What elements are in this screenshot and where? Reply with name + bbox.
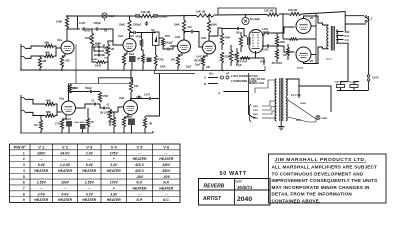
can capacitor 16uF ch1 [102,13,107,18]
capacitor tone b [97,50,102,53]
svg-text:V5: V5 [310,16,314,20]
svg-text:—: — [39,157,44,161]
svg-text:TREB: TREB [95,43,101,45]
transformer T2 secondary winding [336,30,338,43]
wire V3b cathode [203,54,207,57]
svg-text:HEATER: HEATER [107,198,121,202]
pot arrow vol ch1 [89,38,92,40]
svg-text:68K: 68K [45,51,50,55]
resistor R28 68K ch2 [45,102,55,105]
resistor R31 cathode ch2 [60,119,63,129]
V4 internal plates [252,33,260,49]
svg-text:100K: 100K [119,23,125,27]
resistor R34 1K [86,118,89,127]
svg-text:IMPROVEMENT CONSEQUENTLY THE U: IMPROVEMENT CONSEQUENTLY THE UNITS [272,178,378,183]
wire r39 [287,44,289,47]
transformer T1 heater secondary [286,98,287,121]
resistor R2 68K [44,54,54,57]
svg-text:430 V: 430 V [134,169,145,173]
capacitor C3 500pF bright [94,27,100,30]
svg-text:10K 1W: 10K 1W [196,10,206,14]
svg-text:0.7V: 0.7V [86,192,94,196]
resistor R22 PI tail [235,52,238,62]
wire r37 [113,112,115,117]
resistor R23 PI bottom [240,57,250,60]
svg-text:820: 820 [66,59,71,63]
wire V3a plate to C8 [184,32,190,37]
wire PI bottom right [240,57,250,59]
wire C8 to V3b grid [194,32,202,48]
input jack J4 tip hook [21,110,25,112]
svg-text:.022: .022 [129,35,134,38]
wire OT primary bottom [323,48,329,50]
transformer T1 HT secondary [286,79,287,96]
wire HT bridge over bus [218,8,276,15]
svg-text:1.55V: 1.55V [85,181,95,185]
svg-text:100V: 100V [61,181,70,185]
svg-text:+: + [113,187,115,191]
resistor R18 470K reverb [220,33,223,45]
svg-text:N.C.: N.C. [163,198,170,202]
resistor R37 1M left [112,117,115,127]
svg-text:8: 8 [23,192,25,196]
svg-text:2 OFF PO-430: 2 OFF PO-430 [249,78,266,81]
wire mix down [142,47,144,54]
ground bus drop [264,66,266,71]
svg-text:1M: 1M [111,48,114,51]
svg-text:V3a: V3a [175,35,181,39]
svg-text:10K: 10K [206,67,211,69]
wire V2a plate up [68,84,70,102]
wire V2b plate [130,92,132,101]
svg-text:-30V: -30V [163,175,171,179]
svg-text:1.4-5V: 1.4-5V [60,163,71,167]
svg-text:230V: 230V [253,110,259,112]
svg-text:0.047: 0.047 [144,94,151,97]
svg-text:FUSE: FUSE [300,103,306,105]
resistor R5 820 cathode V1a [60,56,63,67]
wire R21 [240,32,242,36]
capacitor blob mid [147,58,152,63]
notice box frame [269,154,387,203]
wire V1a cathode [62,54,65,57]
svg-text:—: — [164,151,169,155]
svg-text:1M: 1M [236,32,239,35]
svg-text:2: 2 [23,157,25,161]
svg-text:220K: 220K [73,87,79,90]
capacitor tone a [97,46,102,49]
capacitor C14 filter [350,85,358,88]
svg-text:2040: 2040 [237,196,252,203]
wire cap to grid line [100,29,119,45]
wire R20 [230,45,232,50]
svg-text:22K: 22K [134,85,139,88]
svg-text:CONTAINED ABOVE.: CONTAINED ABOVE. [272,198,321,203]
svg-text:64.0V: 64.0V [61,151,71,155]
svg-text:A.: A. [203,76,207,80]
capacitor C23 0.047 out [147,97,153,100]
wire bracket row2 [155,71,196,74]
wire screen resistor [298,38,316,40]
pot volume 1M arrow [91,46,93,49]
can capacitor 32+32uF [242,17,249,24]
svg-text:10n: 10n [104,58,108,60]
wire J4 to 68K [25,112,45,115]
wire C12 to V6 grid [270,46,294,52]
transformer T2 primary winding [327,25,329,49]
wire V5 plate to OT [304,16,323,23]
svg-text:HEATER: HEATER [133,157,147,161]
svg-text:160V: 160V [37,151,46,155]
wire J1 to 68K [25,46,44,48]
capacitor C22 8uF bypass [128,119,135,126]
wire V1b plate to cap [130,32,133,34]
pentode V6 [296,47,311,62]
transformer T1 primary winding [275,79,277,121]
wire can to bus [245,15,247,18]
wire mains live [255,88,262,93]
wire V2a cathode [62,115,66,120]
wire R22 [236,48,238,52]
resistor R24 220K bias upper [275,36,278,46]
svg-text:HEATER: HEATER [159,157,173,161]
wire R36 gnd [123,127,125,133]
resistor R1 68K [44,44,54,47]
phono plug P1 [221,76,224,79]
svg-text:HEATER: HEATER [133,187,147,191]
svg-text:—: — [164,192,169,196]
wire V4 plate upper [262,33,266,35]
svg-text:V 1: V 1 [38,145,45,150]
svg-text:6.4V: 6.4V [86,163,94,167]
wire R12 [142,63,144,70]
wire C13 stubs [340,88,342,91]
svg-text:6.3V: 6.3V [296,120,301,122]
wire V3b plate right [209,28,222,41]
ground bus row1 [20,69,265,72]
wire c20 [82,129,84,133]
input jack J1 tip hook [21,46,25,48]
wire J3 to 68K [25,99,45,104]
input jack J3 sleeve line [20,95,22,133]
wire B+ bus segment 1 [66,15,140,17]
svg-text:REVERB: REVERB [204,184,225,190]
capacitor C19 [101,107,107,110]
svg-text:DETAIL FROM THE INFORMATION: DETAIL FROM THE INFORMATION [272,192,353,197]
svg-text:0.022: 0.022 [262,28,269,31]
wire fb line left [347,81,348,83]
svg-text:-35V BIAS: -35V BIAS [271,62,282,65]
resistor R11 470K mix [140,39,143,47]
wire bypass gnd [131,62,133,70]
wire V1b cathode gnd [123,65,125,70]
wire screen node down [75,44,77,70]
resistor R19 [220,52,223,63]
resistor R21 1M PI [239,36,242,47]
capacitor C21 grid [136,96,142,99]
wire grid to V1a [56,47,61,49]
wire R27 top [130,71,132,81]
svg-text:HEATER: HEATER [82,169,96,173]
resistor R30 1M ch2 [39,120,42,130]
resistor R bus 10K 5W b [289,12,301,15]
wire pot dn [109,120,111,126]
wire OT sec bottom to fb [336,43,348,81]
wire heater diag [288,100,316,119]
svg-text:250K: 250K [93,59,99,61]
wire mix node to V3a [159,37,163,40]
capacitor C6 0.022 coupling V1b [132,31,138,34]
wire bus to R14 [183,16,185,20]
svg-text:A.: A. [217,91,221,95]
capacitor tone c [97,54,102,57]
svg-text:3: 3 [23,163,25,167]
resistor R8 mid [96,61,106,64]
wire V4 plate lower [262,45,266,47]
svg-text:N.P.: N.P. [136,181,142,185]
wire can ch1 stub [104,19,106,21]
svg-text:7: 7 [23,187,25,191]
svg-text:ARTIST: ARTIST [202,196,222,202]
svg-text:210V: 210V [253,118,259,120]
svg-text:32+32µF: 32+32µF [250,18,260,21]
pot arrow tone [105,50,108,52]
wire R30 [40,116,42,121]
resistor R3 1M grid leak [38,57,41,68]
svg-text:PIN Nº: PIN Nº [14,145,27,150]
wire OT sec tap 4 [336,39,343,41]
svg-text:9: 9 [23,198,25,202]
svg-text:1: 1 [23,151,25,155]
svg-text:4 Ω: 4 Ω [345,38,349,42]
wire HT line lower [345,23,366,25]
resistor R7 tone [106,44,109,56]
input jack J2 tip hook [21,56,25,58]
wire HT line upper [345,15,364,17]
svg-text:2200pF: 2200pF [159,16,168,19]
triode V2a [62,101,76,115]
svg-text:1M: 1M [34,124,37,127]
resistor R10 820 cathode V1b [122,54,125,65]
wire R18 [221,28,223,33]
svg-text:JIM MARSHALL PRODUCTS LTD.: JIM MARSHALL PRODUCTS LTD. [275,157,367,163]
wire R15 gnd [177,66,179,71]
svg-text:2200pF: 2200pF [133,24,142,27]
svg-text:V2a: V2a [59,97,65,101]
wire to PI grid [222,28,236,30]
wire v2b out [131,99,148,101]
svg-text:V3b: V3b [201,36,207,40]
svg-text:0.047: 0.047 [196,56,202,59]
svg-text:V6: V6 [310,59,314,63]
wire V2b cathode [124,114,128,118]
wire r38 [144,116,146,118]
primary tap 220V [262,111,276,114]
svg-text:10K 1W: 10K 1W [141,10,151,14]
triode V1a [61,41,74,54]
svg-text:1M: 1M [149,123,152,126]
resistor R20 [229,50,232,62]
svg-text:ALL MARSHALL AMPLIFIERS ARE SU: ALL MARSHALL AMPLIFIERS ARE SUBJECT [272,165,378,170]
svg-text:5: 5 [23,175,25,179]
svg-text:220V: 220V [253,114,259,116]
resistor R bus 10K 1W (right) [196,14,214,17]
svg-text:68K: 68K [45,41,50,45]
wire B+ bus segment 2 [153,15,196,18]
resistor R16 100K anode V3b [207,20,210,33]
svg-text:-30V: -30V [136,175,144,179]
svg-text:HEATER: HEATER [107,169,121,173]
wire junction dots bus [66,15,68,17]
svg-text:4: 4 [23,169,25,173]
capacitor C20 10uF [80,124,86,129]
svg-text:V1a: V1a [57,38,63,42]
double triode V4 envelope [249,30,263,54]
svg-text:V 6: V 6 [163,145,170,150]
ground bus row2 [20,132,153,134]
wire V5 screen [311,25,316,27]
wire 1M top [39,56,41,57]
resistor R33 470K mix2 [98,92,101,102]
svg-text:—: — [62,187,67,191]
wire V1b plate [129,33,131,39]
resistor R29 68K ch2b [45,114,55,117]
wire between caps [87,28,94,30]
svg-text:—: — [137,192,142,196]
wire mix c [70,92,89,94]
svg-text:1M: 1M [43,59,47,63]
svg-text:50 WATT: 50 WATT [220,171,247,177]
wire B arrow [208,83,218,85]
svg-text:MAY INCORPORATE MINOR CHANGES: MAY INCORPORATE MINOR CHANGES IN [272,185,370,190]
svg-text:16µF: 16µF [109,15,115,18]
svg-text:BASS: BASS [95,65,102,68]
mains selector bracket [250,104,252,122]
V4 internal grid dashes [253,34,258,47]
capacitor decoupling under bus [145,21,148,25]
resistor R39 47K bias [287,47,290,56]
pot 1M vol ch2 [108,109,111,120]
wire OT sec tap 8 [336,35,343,37]
svg-text:470K: 470K [103,95,109,98]
svg-text:HEATER: HEATER [34,198,48,202]
svg-text:25µF: 25µF [129,54,135,56]
svg-text:LOUD: LOUD [372,78,379,80]
svg-text:1M: 1M [108,121,111,124]
resistor R38 1M right [143,118,146,129]
wire grid join [54,46,56,56]
wire V6 plate to OT [304,47,323,64]
wire HT stub [368,23,370,75]
wire bus to R9 [129,16,131,20]
wire R31 gnd [61,129,63,133]
svg-text:6.4V: 6.4V [38,163,46,167]
svg-text:16Ω: 16Ω [345,30,350,34]
svg-text:HEATER: HEATER [58,198,72,202]
speaker jack J5 [367,75,369,77]
pentode V5 [296,19,311,34]
svg-text:V 5: V 5 [136,145,143,150]
svg-text:N.P.: N.P. [163,181,169,185]
resistor R4 100K anode V1a [65,17,68,29]
svg-text:470K: 470K [260,61,266,64]
wire row2 gnd up [152,131,154,133]
resistor R9 100K anode V1b [128,20,131,33]
svg-text:25µF: 25µF [195,65,201,67]
svg-text:25mA: 25mA [297,67,303,70]
svg-text:0.022: 0.022 [263,49,270,52]
svg-text:—: — [62,157,67,161]
svg-text:Some: Some [326,59,333,61]
svg-text:2.7K: 2.7K [55,123,60,126]
resistor R27 22K anode V2b [129,80,132,92]
wire A arrow [208,77,218,79]
capacitor C11 0.022 upper [265,31,271,34]
svg-text:V1b: V1b [118,34,124,38]
svg-text:B.: B. [204,82,207,86]
wire J2 to 68K [25,56,44,58]
svg-text:6.3 V A.C.: 6.3 V A.C. [291,94,302,97]
resistor R6 470K [90,33,93,46]
wire bus to R16 [208,16,210,20]
pilot lamp [316,116,320,120]
wire cap rail [337,90,368,92]
svg-text:10K 5W: 10K 5W [264,9,274,13]
svg-text:500pF: 500pF [85,87,92,90]
svg-text:—: — [87,187,92,191]
svg-text:2.2V: 2.2V [109,163,118,167]
title table divider v [234,179,236,206]
solder tag left of bus resistor [136,15,140,18]
svg-text:220K: 220K [280,41,286,44]
resistor R26 1K screen [289,38,298,41]
svg-text:450V: 450V [161,169,171,173]
svg-text:470K: 470K [225,37,231,40]
svg-text:170V: 170V [110,181,119,185]
wire tone stack verticals [92,46,97,48]
wire pilot [308,119,316,122]
wire grid join ch2 [55,104,62,112]
wire plate to coupling cap [67,28,80,30]
primary tap 240V [262,101,276,106]
svg-text:HEATER: HEATER [159,187,173,191]
wire reverb mix rail [69,83,130,85]
resistor R14 100K anode V3a [182,20,185,33]
svg-text:2-470 HT: 2-470 HT [238,61,248,64]
wire volume tap [91,29,93,33]
svg-text:1.55V: 1.55V [37,181,47,185]
wire cap to mix [137,32,156,34]
svg-text:V 2: V 2 [62,145,69,150]
svg-text:68K: 68K [46,110,51,114]
svg-text:470K: 470K [136,36,142,39]
capacitor C10 PI input [248,37,251,45]
wire B+ bus segment 4 [279,13,289,15]
wire tone down [92,49,96,62]
wire r34 [87,108,89,118]
resistor R36 cathode V2b [122,117,125,127]
wire bias join [276,33,278,36]
wire V1b grid [118,44,123,46]
svg-text:DATE: DATE [236,180,243,183]
wire A2 line [224,92,256,118]
svg-text:MAINS 6.3VA: MAINS 6.3VA [249,82,264,85]
wire OT primary top [323,23,329,25]
svg-text:420 V: 420 V [134,163,145,167]
svg-text:2-5V: 2-5V [37,192,46,196]
svg-text:HEATER: HEATER [82,198,96,202]
wire 1M bottom [39,68,41,70]
